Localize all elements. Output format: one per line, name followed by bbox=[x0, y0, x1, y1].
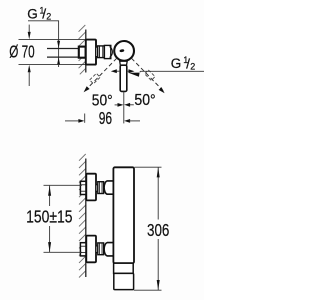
nipple bbox=[96, 47, 98, 56]
handle neck bbox=[120, 61, 128, 65]
svg-text:50°: 50° bbox=[134, 92, 155, 109]
svg-text:G: G bbox=[27, 7, 38, 22]
svg-text:2: 2 bbox=[46, 12, 51, 22]
svg-text:150±15: 150±15 bbox=[26, 206, 72, 226]
center line below stem bbox=[123, 92, 125, 124]
dim 306 bbox=[134, 167, 162, 290]
swivel arrow left bbox=[111, 69, 120, 73]
union nut bbox=[98, 46, 105, 58]
in-wall fitting bbox=[79, 47, 86, 58]
nut upper bbox=[98, 182, 104, 194]
svg-text:Ø 70: Ø 70 bbox=[9, 41, 35, 61]
swivel arrow right bbox=[127, 69, 135, 73]
svg-text:2: 2 bbox=[190, 61, 195, 71]
svg-text:G: G bbox=[171, 56, 182, 71]
outlet bbox=[114, 273, 134, 289]
50deg arrow left bbox=[115, 103, 124, 107]
escutcheon lower bbox=[86, 236, 96, 263]
handle stem bbox=[120, 65, 127, 91]
dashed swivel line right bbox=[131, 58, 164, 93]
boss lower bbox=[104, 243, 113, 256]
label G1/2 right bbox=[171, 55, 196, 71]
svg-text:50°: 50° bbox=[92, 92, 113, 109]
valve body circle bbox=[114, 41, 134, 61]
dim 70 arrows bbox=[28, 25, 31, 86]
in-wall pipe upper bbox=[80, 181, 86, 194]
label G1/2 top-left bbox=[27, 6, 51, 22]
dim 70 extension lines bbox=[19, 40, 86, 65]
nipple upper bbox=[96, 185, 98, 191]
lever mark bbox=[119, 49, 124, 53]
nipple lower bbox=[96, 246, 98, 252]
supply pipe bbox=[47, 49, 86, 58]
leader G1/2 top-left bbox=[28, 21, 60, 67]
nut lower bbox=[98, 243, 104, 255]
50deg arrow right bbox=[124, 103, 134, 107]
rotated handle end left bbox=[90, 73, 101, 83]
boss upper bbox=[104, 181, 113, 194]
svg-text:96: 96 bbox=[99, 108, 112, 128]
wall bbox=[79, 25, 86, 74]
wall lower bbox=[79, 154, 86, 278]
collar bbox=[114, 263, 134, 273]
flange bbox=[86, 40, 96, 65]
dim 96 bbox=[65, 114, 140, 123]
dashed swivel line left bbox=[84, 58, 117, 92]
rotated handle end right bbox=[145, 70, 156, 80]
in-wall pipe lower bbox=[80, 243, 86, 256]
dim 150 bbox=[44, 185, 83, 252]
body bbox=[113, 167, 134, 263]
escutcheon upper bbox=[86, 174, 96, 201]
adapter bbox=[104, 45, 112, 58]
leader G1/2 right bbox=[128, 71, 204, 77]
svg-text:306: 306 bbox=[147, 220, 169, 240]
